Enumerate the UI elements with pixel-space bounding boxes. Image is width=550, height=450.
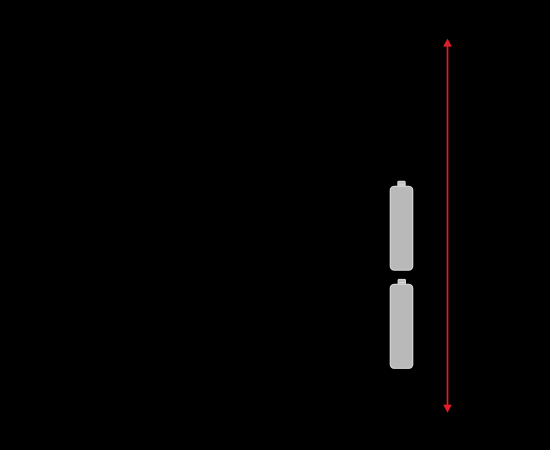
- arrowhead bottom: [443, 405, 452, 413]
- battery B2 body: [390, 284, 413, 368]
- red dimension arrow (double-headed, vertical): [443, 39, 452, 413]
- battery B2 positive terminal nub: [398, 279, 405, 285]
- battery B2 (bottom AA cell): [390, 279, 413, 368]
- arrow shaft wire: [447, 46, 449, 406]
- arrowhead top: [443, 39, 452, 47]
- battery B1 body: [390, 186, 413, 270]
- battery B1 positive terminal nub: [398, 181, 405, 187]
- battery B1 (top AA cell): [390, 181, 413, 270]
